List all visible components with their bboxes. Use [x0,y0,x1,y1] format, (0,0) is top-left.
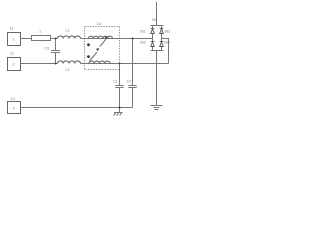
svg-text:13: 13 [11,97,15,101]
svg-text:11: 11 [10,26,14,30]
svg-text:C3: C3 [44,47,49,51]
svg-text:1: 1 [13,38,15,42]
svg-text:C1: C1 [113,80,118,84]
svg-text:3: 3 [13,107,15,111]
svg-text:L2: L2 [66,68,70,72]
svg-text:1A: 1A [97,22,102,26]
svg-text:C2: C2 [127,80,132,84]
svg-text:1B: 1B [152,18,157,22]
svg-text:1B4: 1B4 [164,41,170,45]
svg-text:L1: L1 [66,29,70,33]
svg-text:1B2: 1B2 [164,30,170,34]
svg-text:1B1: 1B1 [140,30,146,34]
svg-text:12: 12 [10,52,14,56]
svg-text:1B3: 1B3 [140,41,146,45]
svg-text:2: 2 [13,63,15,67]
svg-text:1: 1 [39,30,41,34]
